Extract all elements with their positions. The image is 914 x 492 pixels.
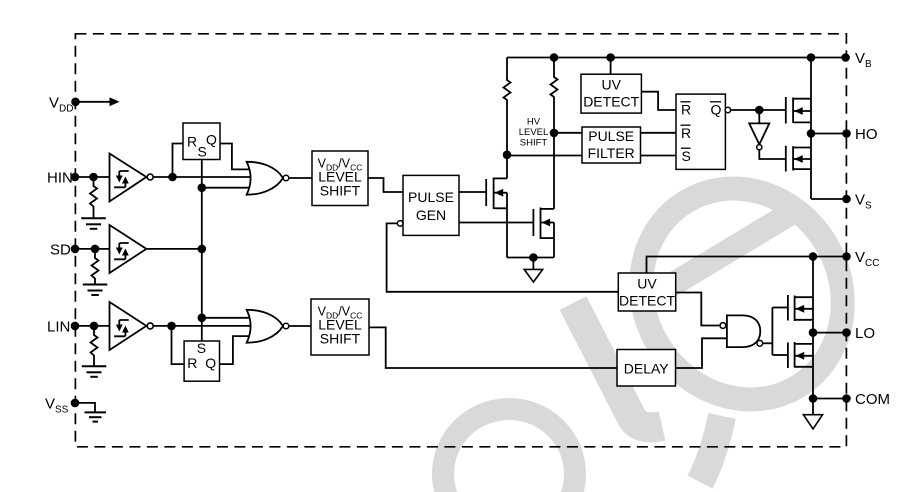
node VCC pin (842, 252, 851, 261)
svg-text:PULSE: PULSE (408, 189, 454, 205)
svg-text:VS: VS (855, 192, 872, 212)
svg-text:S: S (197, 340, 206, 356)
wire S-line branch to NOR G1 (202, 187, 253, 189)
wire NOR G2 output to level shift 2 (289, 325, 311, 327)
svg-text:Q: Q (206, 132, 217, 148)
transistor Q1 HV level shift upper (486, 155, 507, 258)
wire HIN buffer output to NOR G1 (153, 176, 253, 178)
wire S-line branch to NOR G2 (202, 317, 253, 319)
svg-text:R: R (187, 133, 197, 149)
node R1 bottom (503, 151, 512, 160)
block pulse filter box (582, 127, 641, 163)
wire SD common vertical line (201, 160, 203, 342)
wire inverter output to low-side gate (759, 150, 786, 159)
buffer U1 HIN schmitt (110, 154, 154, 202)
wire latch FF2 R input (172, 326, 185, 364)
svg-text:FILTER: FILTER (588, 145, 635, 161)
wire UV detect 1 output to latch Rbar1 (641, 92, 676, 110)
wire SD buffer output (146, 248, 201, 250)
block UV detect 1 box (581, 74, 641, 113)
wire COM node to ground (812, 399, 814, 415)
latch FF2 box (184, 341, 219, 381)
wire LIN pin to buffer (75, 325, 109, 327)
wire LO node to pin (813, 332, 847, 334)
block delay box (617, 350, 676, 387)
svg-text:HV: HV (527, 117, 541, 128)
arrow VDD (110, 97, 120, 106)
nor gate G1 (247, 162, 289, 195)
ground HV level shift open triangle (524, 269, 543, 282)
svg-text:VCC: VCC (855, 249, 879, 269)
node HV source (529, 253, 538, 262)
ground SD (83, 285, 108, 296)
wire HIN pin to buffer (75, 176, 109, 178)
svg-text:HIN: HIN (47, 170, 73, 187)
svg-text:DELAY: DELAY (624, 361, 670, 377)
overbar FF3 Rbar2 (681, 124, 691, 126)
wire pulse filter to latch Rbar input (641, 132, 677, 134)
ground COM open triangle (803, 415, 822, 429)
latch FF3 RRS box (676, 94, 731, 169)
transistor M4 LO low-side (788, 342, 813, 368)
node HIN resistor junction (89, 173, 98, 182)
wire gate node to inverter input (758, 110, 760, 123)
svg-text:VB: VB (855, 50, 872, 70)
wire R2 bottom node to pulse filter R input (554, 132, 582, 134)
wire LO half-bridge vertical (812, 257, 814, 399)
watermark (443, 151, 882, 492)
block level shift 1 box (312, 151, 368, 206)
wire HO node to pin (811, 133, 847, 135)
node LIN resistor junction (90, 322, 99, 331)
svg-text:Q: Q (205, 355, 216, 371)
node HIN pin (71, 173, 80, 182)
svg-text:SD: SD (50, 242, 71, 259)
svg-text:DETECT: DETECT (619, 293, 675, 309)
overbar FF3 Rbar1 (681, 101, 691, 103)
node LIN latch junction (167, 322, 176, 331)
latch FF1 box (183, 123, 220, 160)
svg-text:COM: COM (855, 391, 890, 408)
node COM pin (842, 394, 851, 403)
wire level shift 1 to pulse gen (368, 178, 403, 192)
svg-text:UV: UV (637, 276, 657, 292)
svg-text:S: S (682, 148, 691, 164)
node SD pin (71, 245, 80, 254)
wire LO upper gate stub (772, 307, 788, 309)
transistor M1 HO high-side (786, 97, 811, 124)
node VS pin (842, 195, 851, 204)
svg-text:GEN: GEN (416, 207, 446, 223)
wire latch FF2 Q output to NOR G2 (220, 336, 254, 364)
wire pulse filter to latch Sbar input (641, 155, 677, 157)
svg-text:R: R (681, 102, 691, 118)
node HO (807, 129, 816, 138)
svg-text:HO: HO (855, 126, 878, 143)
wire DELAY output to NAND (676, 338, 727, 368)
wire LO lower gate stub (772, 354, 788, 356)
wire VB rail (507, 57, 846, 59)
wire COM node to pin (813, 398, 847, 400)
node LO (809, 328, 818, 337)
ground HIN (81, 218, 106, 229)
svg-text:LO: LO (855, 325, 875, 342)
node VB rail M1 (807, 53, 816, 62)
transistor Q2 HV level shift lower (533, 133, 554, 258)
resistor R-SD pulldown (92, 249, 99, 284)
wire SD pin to buffer (75, 248, 109, 250)
svg-text:LEVEL: LEVEL (519, 127, 549, 138)
nor gate G2 (247, 310, 289, 343)
svg-text:UV: UV (601, 77, 621, 93)
wire VCC rail (647, 257, 847, 274)
svg-text:LIN: LIN (47, 319, 70, 336)
wire HO half-bridge vertical (810, 58, 812, 200)
wire pulse gen output 2 to Q2 gate (459, 222, 533, 224)
node COM (809, 394, 818, 403)
wire LO gate split vertical (771, 308, 773, 356)
wire pulse gen output 1 to Q1 gate (459, 191, 486, 193)
inverter U4 (749, 123, 769, 149)
wire NAND output to LO gates (763, 342, 773, 344)
svg-text:Q: Q (711, 102, 722, 118)
transistor M3 LO high-side (788, 295, 813, 321)
svg-text:DETECT: DETECT (583, 94, 639, 110)
wire UV detect 1 drop from VB rail (610, 58, 612, 75)
node SD resistor junction (91, 245, 100, 254)
block pulse gen box (397, 175, 459, 235)
overbar FF3 Qbar (710, 101, 721, 103)
IC boundary dashed border (75, 34, 846, 447)
node VB rail UV (606, 53, 615, 62)
node R2 bottom (550, 129, 559, 138)
node VSS pin (71, 399, 80, 408)
block level shift 2 box (311, 299, 369, 355)
svg-text:SHIFT: SHIFT (320, 183, 361, 199)
wire UV detect 2 output to NAND (676, 293, 720, 326)
wire VS node to pin (811, 198, 847, 200)
svg-text:VDD: VDD (49, 95, 73, 115)
wire R1 bottom node to pulse filter S input (507, 155, 582, 157)
node VDD pin (71, 98, 80, 107)
node S-line NOR2 junction (198, 314, 207, 323)
node LO pin (842, 328, 851, 337)
node HO pin (842, 129, 851, 138)
wire HV source rail (507, 257, 554, 259)
overbar FF3 Sbar (681, 147, 691, 149)
node LIN pin (71, 322, 80, 331)
node S-line NOR1 junction (198, 183, 207, 192)
resistor R-LIN pulldown (91, 326, 98, 366)
wire NOR G1 output to level shift 1 (289, 177, 312, 179)
wire HV source to ground (532, 258, 534, 270)
svg-text:SHIFT: SHIFT (520, 138, 548, 149)
block UV detect 2 box (618, 273, 675, 311)
ground VSS (85, 412, 107, 421)
wire level shift 2 to DELAY (368, 327, 617, 368)
node VB pin (841, 53, 850, 62)
node Qbar junction (755, 106, 764, 115)
svg-text:PULSE: PULSE (588, 128, 634, 144)
wire pulse gen feedback from UV detect 2 (387, 223, 619, 291)
nand gate G3 (720, 315, 763, 347)
node VCC rail M3 (809, 252, 818, 261)
svg-text:VSS: VSS (45, 396, 69, 416)
node VB rail R2 (550, 53, 559, 62)
wire LIN buffer output to NOR G2 (153, 325, 253, 327)
wire VDD arrow line (76, 101, 113, 103)
wire latch Qbar output to gate node (731, 109, 786, 111)
buffer U2 SD schmitt (110, 225, 147, 273)
node HIN latch junction (168, 173, 177, 182)
wire latch FF1 Q output to NOR G1 (220, 144, 253, 170)
svg-text:SHIFT: SHIFT (320, 331, 361, 347)
buffer U3 LIN schmitt (110, 302, 154, 350)
ground LIN (82, 366, 107, 377)
wire VSS pin to ground (75, 403, 95, 412)
svg-text:R: R (681, 125, 691, 141)
transistor M2 HO low-side (786, 146, 811, 172)
resistor R-HIN pulldown (90, 177, 97, 218)
node SD line junction (198, 245, 207, 254)
resistor R1 HV left (504, 58, 511, 155)
svg-text:R: R (187, 355, 197, 371)
resistor R2 HV right (551, 58, 558, 133)
wire latch FF1 R input (173, 144, 184, 178)
